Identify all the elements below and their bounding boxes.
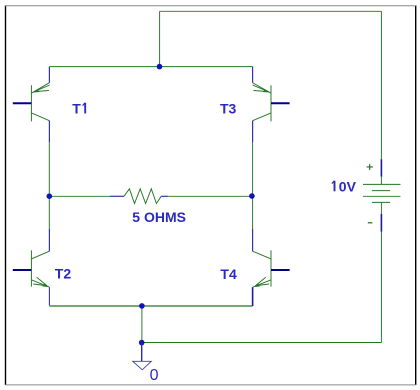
wire ground riser bbox=[141, 306, 143, 343]
wire bottom rail bbox=[142, 342, 382, 344]
wire node A riser bbox=[159, 11, 161, 66]
svg-text:T: T bbox=[72, 101, 81, 117]
svg-text:0: 0 bbox=[150, 367, 159, 384]
ground pin bbox=[141, 343, 143, 362]
wire right mid vertical bbox=[252, 142, 254, 229]
wire emitter rail bbox=[49, 305, 252, 307]
transistor T2 bbox=[13, 229, 50, 305]
wire right rail upper bbox=[380, 11, 382, 159]
battery V1 (10V) bbox=[363, 159, 401, 231]
resistor R (5 OHMS) bbox=[110, 189, 168, 204]
junction node left mid bbox=[47, 193, 53, 199]
junction node emitter rail bbox=[139, 303, 145, 309]
svg-text:T3: T3 bbox=[220, 101, 237, 117]
svg-text:5 OHMS: 5 OHMS bbox=[132, 209, 186, 225]
junction node top bbox=[157, 64, 163, 70]
wire right rail lower bbox=[380, 232, 382, 343]
wire mid rail left bbox=[49, 195, 110, 197]
wire mid rail right bbox=[168, 195, 253, 197]
ground symbol bbox=[133, 361, 152, 370]
svg-text:T2: T2 bbox=[55, 265, 72, 281]
wire top horizontal to battery bbox=[160, 10, 382, 12]
svg-text:T4: T4 bbox=[220, 266, 237, 282]
transistor T1 bbox=[13, 67, 50, 142]
transistor T4 bbox=[253, 229, 290, 306]
wire left mid vertical bbox=[48, 142, 50, 229]
transistor T3 bbox=[253, 67, 290, 142]
junction node right mid bbox=[249, 193, 255, 199]
label 10V bbox=[334, 181, 336, 192]
junction node bottom rail bbox=[139, 340, 145, 346]
wire top rail bbox=[49, 66, 252, 68]
svg-text:0V: 0V bbox=[339, 178, 357, 194]
